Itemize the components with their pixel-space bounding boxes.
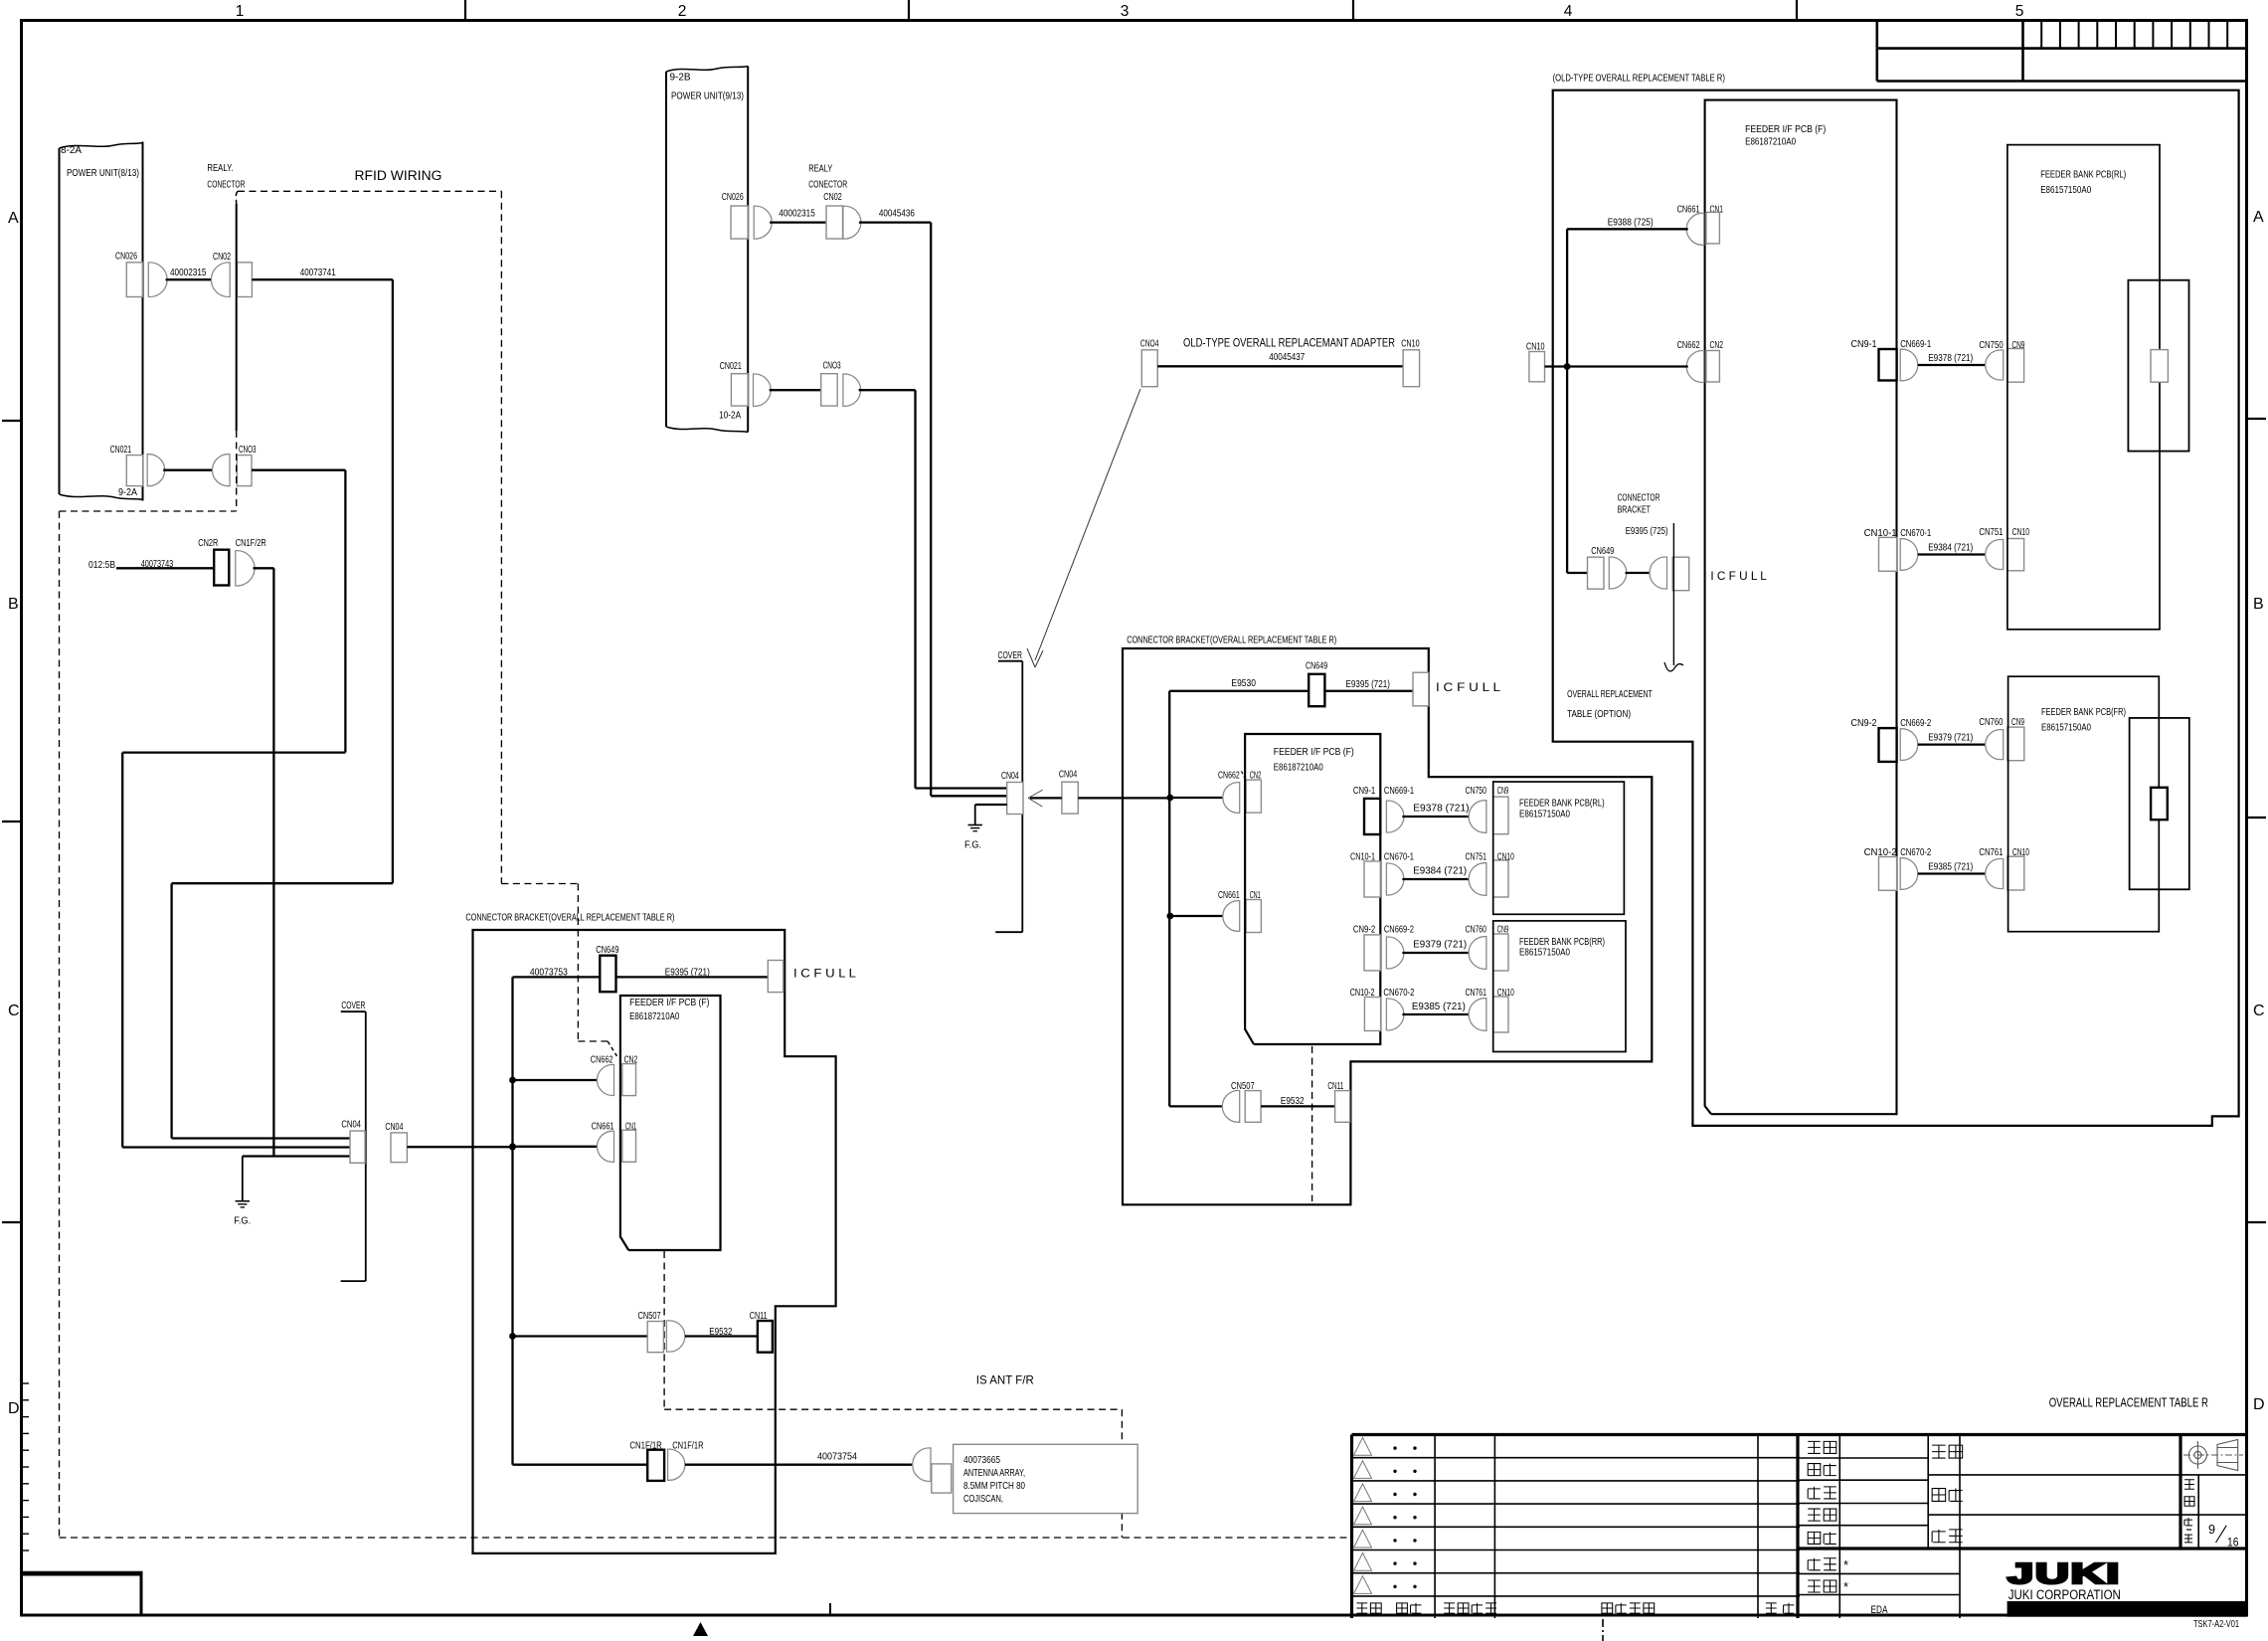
svg-text:3: 3 bbox=[1121, 3, 1130, 20]
svg-text:I C F U L L: I C F U L L bbox=[1710, 569, 1767, 583]
svg-text:REALY: REALY bbox=[808, 163, 832, 175]
feeder bank PCB RR box central bbox=[1493, 921, 1626, 1052]
svg-text:FEEDER I/F PCB (F): FEEDER I/F PCB (F) bbox=[629, 997, 709, 1008]
svg-text:CN751: CN751 bbox=[1466, 850, 1486, 862]
svg-text:B: B bbox=[8, 596, 19, 613]
svg-text:CN662: CN662 bbox=[1677, 339, 1700, 351]
svg-text:IS ANT F/R: IS ANT F/R bbox=[976, 1373, 1034, 1387]
svg-text:E86157150A0: E86157150A0 bbox=[1519, 808, 1570, 820]
svg-text:E86187210A0: E86187210A0 bbox=[1274, 762, 1323, 774]
svg-text:*: * bbox=[1843, 1579, 1848, 1594]
svg-text:9-2A: 9-2A bbox=[118, 486, 137, 498]
svg-text:EDA: EDA bbox=[1871, 1604, 1888, 1616]
svg-text:CNO4: CNO4 bbox=[1140, 338, 1159, 350]
svg-text:40073741: 40073741 bbox=[300, 267, 336, 278]
feeder I/F PCB box left bbox=[620, 996, 721, 1250]
svg-text:CN9-1: CN9-1 bbox=[1851, 338, 1877, 350]
svg-text:CN04: CN04 bbox=[1059, 769, 1077, 781]
svg-text:JUKI: JUKI bbox=[2007, 1558, 2121, 1590]
svg-text:5: 5 bbox=[2015, 3, 2024, 20]
svg-text:F.G.: F.G. bbox=[234, 1215, 251, 1227]
svg-text:40073665: 40073665 bbox=[963, 1454, 1000, 1466]
wire F.G. branch center bbox=[975, 804, 1007, 806]
svg-text:CN750: CN750 bbox=[1466, 785, 1486, 797]
svg-text:1: 1 bbox=[236, 3, 245, 20]
svg-text:16: 16 bbox=[2227, 1537, 2239, 1549]
svg-text:4: 4 bbox=[1564, 3, 1573, 20]
connector IC FULL left bbox=[768, 961, 784, 993]
svg-text:40045436: 40045436 bbox=[879, 208, 915, 220]
FR bank overlay box bbox=[2130, 718, 2189, 889]
revision table header kanji bbox=[1356, 1603, 1367, 1613]
svg-text:CN9: CN9 bbox=[2011, 716, 2024, 728]
svg-text:ANTENNA ARRAY,: ANTENNA ARRAY, bbox=[963, 1467, 1025, 1479]
svg-text:CN9: CN9 bbox=[1497, 924, 1509, 936]
svg-text:OLD-TYPE OVERALL REPLACEMANT A: OLD-TYPE OVERALL REPLACEMANT ADAPTER bbox=[1183, 336, 1395, 350]
svg-text:CONNECTOR: CONNECTOR bbox=[1618, 492, 1660, 504]
plug direction arrow center bbox=[1030, 797, 1062, 799]
wire 40073743 bbox=[116, 567, 214, 569]
approval value dividers bbox=[1838, 1435, 1840, 1550]
svg-text:CN026: CN026 bbox=[115, 251, 137, 263]
svg-text:COVER: COVER bbox=[341, 1000, 365, 1011]
svg-text:F.G.: F.G. bbox=[964, 838, 981, 850]
svg-text:CONECTOR: CONECTOR bbox=[808, 178, 847, 190]
svg-text:POWER UNIT(8/13): POWER UNIT(8/13) bbox=[67, 167, 139, 179]
wire 40002315 bbox=[166, 278, 215, 280]
svg-text:JUKI CORPORATION: JUKI CORPORATION bbox=[2008, 1587, 2121, 1602]
approval kanji labels bbox=[1808, 1441, 1821, 1453]
zone boundary ticks right bbox=[2247, 418, 2266, 420]
svg-text:I C F U L L: I C F U L L bbox=[793, 966, 856, 980]
svg-text:CN670-2: CN670-2 bbox=[1900, 846, 1931, 858]
svg-text:CN662: CN662 bbox=[1218, 769, 1240, 781]
svg-text:A: A bbox=[8, 210, 19, 227]
wire E9395 (721) left bbox=[616, 976, 769, 978]
left bus wire bbox=[511, 977, 513, 1464]
svg-text:POWER UNIT(9/13): POWER UNIT(9/13) bbox=[671, 91, 744, 102]
svg-text:FEEDER I/F PCB (F): FEEDER I/F PCB (F) bbox=[1274, 746, 1354, 758]
model/part/name cells bbox=[1927, 1435, 1929, 1550]
svg-text:COJISCAN,: COJISCAN, bbox=[963, 1493, 1003, 1505]
svg-text:10-2A: 10-2A bbox=[719, 410, 741, 422]
central bracket box outline bbox=[1123, 648, 1652, 1204]
svg-text:CN2: CN2 bbox=[1710, 339, 1724, 351]
projection symbol cell bbox=[2179, 1435, 2181, 1550]
relay connector leader line solid bbox=[236, 204, 238, 431]
revision table columns bbox=[1434, 1435, 1436, 1619]
RL bank overlay box bbox=[2128, 280, 2188, 452]
old-type section outer box bbox=[1553, 91, 2239, 1126]
svg-text:CN669-1: CN669-1 bbox=[1384, 785, 1414, 797]
svg-text:CN507: CN507 bbox=[638, 1310, 661, 1322]
svg-text:CN021: CN021 bbox=[720, 360, 742, 372]
svg-text:CN9: CN9 bbox=[2011, 339, 2024, 351]
wire 40002315 (2) bbox=[770, 221, 826, 223]
svg-text:CONNECTOR BRACKET(OVERALL REPL: CONNECTOR BRACKET(OVERALL REPLACEMENT TA… bbox=[1127, 634, 1336, 645]
center mark triangle bottom bbox=[693, 1622, 708, 1636]
svg-text:CN9-1: CN9-1 bbox=[1353, 785, 1375, 797]
svg-text:CN661: CN661 bbox=[1218, 889, 1240, 901]
svg-text:B: B bbox=[2253, 596, 2264, 613]
svg-text:9-2B: 9-2B bbox=[670, 71, 691, 83]
connector CN661/CN1 left bbox=[513, 1146, 600, 1148]
svg-text:(OLD-TYPE OVERALL REPLACEMENT: (OLD-TYPE OVERALL REPLACEMENT TABLE R) bbox=[1553, 73, 1725, 85]
svg-text:CN04: CN04 bbox=[385, 1121, 403, 1133]
feeder I/F PCB box central bbox=[1245, 734, 1380, 1044]
svg-text:CN2R: CN2R bbox=[198, 537, 218, 549]
svg-text:CN661: CN661 bbox=[1677, 203, 1700, 215]
svg-text:E86157150A0: E86157150A0 bbox=[2040, 184, 2091, 196]
antenna array info box bbox=[954, 1444, 1138, 1513]
svg-text:CN669-2: CN669-2 bbox=[1384, 924, 1414, 936]
svg-text:CN670-1: CN670-1 bbox=[1900, 527, 1931, 539]
ruler ticks bottom-left border bbox=[21, 1382, 29, 1384]
svg-text:CN662: CN662 bbox=[591, 1054, 613, 1066]
revision table rows bbox=[1352, 1457, 1801, 1459]
svg-text:CONECTOR: CONECTOR bbox=[207, 178, 245, 190]
svg-text:E9378 (721): E9378 (721) bbox=[1928, 352, 1973, 364]
svg-text:CN751: CN751 bbox=[1979, 526, 2003, 538]
svg-text:C: C bbox=[8, 1003, 20, 1019]
svg-text:E9532: E9532 bbox=[1281, 1095, 1305, 1107]
svg-text:40002315: 40002315 bbox=[779, 208, 815, 220]
svg-text:D: D bbox=[8, 1400, 20, 1417]
dashed drop from central feeder box bbox=[1311, 1046, 1313, 1201]
approval column cells bbox=[1798, 1457, 1928, 1459]
svg-text:A: A bbox=[2253, 209, 2264, 226]
svg-text:I C F U L L: I C F U L L bbox=[1436, 680, 1500, 694]
svg-text:CN649: CN649 bbox=[1306, 660, 1327, 672]
svg-text:E86157150A0: E86157150A0 bbox=[2041, 722, 2091, 734]
svg-text:CN9: CN9 bbox=[1497, 785, 1509, 797]
svg-text:40073754: 40073754 bbox=[817, 1451, 857, 1463]
antenna connector bbox=[913, 1448, 931, 1482]
power unit 8/13 box bbox=[60, 143, 143, 149]
svg-text:40073753: 40073753 bbox=[530, 966, 568, 978]
svg-text:CN760: CN760 bbox=[1466, 924, 1486, 936]
connector CN661/CN1 central bbox=[1169, 915, 1224, 917]
svg-text:CN021: CN021 bbox=[110, 444, 132, 456]
wire center CN04 to bus bbox=[1078, 797, 1170, 799]
svg-text:40002315: 40002315 bbox=[170, 267, 207, 278]
svg-text:012:5B: 012:5B bbox=[88, 559, 115, 571]
zone boundary ticks left bbox=[2, 420, 21, 422]
dashed leader to left CN662 bbox=[500, 191, 502, 883]
svg-text:9: 9 bbox=[2208, 1522, 2215, 1537]
leader arrow to option table label bbox=[1672, 523, 1674, 665]
svg-text:CN1F/1R: CN1F/1R bbox=[672, 1440, 704, 1452]
svg-text:CN9-2: CN9-2 bbox=[1851, 717, 1877, 729]
first angle projection symbol bbox=[2188, 1446, 2206, 1464]
leader arrow from adapter CN04 to cover bbox=[1035, 389, 1140, 660]
feeder I/F PCB box right bbox=[1705, 100, 1897, 1115]
svg-text:*: * bbox=[1843, 1557, 1848, 1572]
svg-text:E9388 (725): E9388 (725) bbox=[1608, 217, 1654, 229]
svg-text:CN670-2: CN670-2 bbox=[1383, 987, 1414, 999]
connector CN507/CN11 left bbox=[513, 1335, 648, 1337]
svg-text:CONNECTOR BRACKET(OVERALL REPL: CONNECTOR BRACKET(OVERALL REPLACEMENT TA… bbox=[465, 912, 674, 924]
wire E9388 (725) bbox=[1567, 228, 1688, 230]
svg-text:D: D bbox=[2253, 1396, 2265, 1413]
dashed RFID wiring boundary bbox=[238, 190, 501, 192]
svg-text:E9385 (721): E9385 (721) bbox=[1928, 861, 1973, 873]
title block outer frame bbox=[1352, 1433, 2248, 1436]
connector CN662/CN2 central bbox=[1170, 797, 1225, 799]
svg-text:COVER: COVER bbox=[998, 649, 1023, 661]
svg-text:CN1F/2R: CN1F/2R bbox=[236, 537, 266, 549]
scale page kanji bbox=[2184, 1480, 2194, 1489]
svg-text:CN750: CN750 bbox=[1979, 339, 2003, 351]
fold mark dash-dot bottom bbox=[1602, 1619, 1604, 1641]
svg-text:CN9-2: CN9-2 bbox=[1353, 924, 1375, 936]
wire CN1F/2R route to CN04 bbox=[254, 567, 274, 569]
svg-text:40045437: 40045437 bbox=[1269, 351, 1305, 363]
feeder bank PCB FR box right bbox=[2008, 676, 2160, 932]
power unit 9/13 box bbox=[666, 67, 748, 73]
left bracket box outline bbox=[473, 930, 836, 1553]
svg-text:E9395 (721): E9395 (721) bbox=[665, 966, 710, 978]
svg-text:BRACKET: BRACKET bbox=[1618, 504, 1652, 516]
svg-text:CN669-2: CN669-2 bbox=[1900, 717, 1931, 729]
svg-text:E9384 (721): E9384 (721) bbox=[1413, 865, 1467, 877]
wire 40045436 route to center CN04 bbox=[859, 221, 931, 223]
svg-text:OVERALL REPLACEMENT TABLE R: OVERALL REPLACEMENT TABLE R bbox=[2049, 1395, 2208, 1410]
svg-text:E86187210A0: E86187210A0 bbox=[629, 1010, 679, 1022]
svg-text:E86187210A0: E86187210A0 bbox=[1745, 136, 1796, 148]
svg-text:TABLE (OPTION): TABLE (OPTION) bbox=[1567, 708, 1631, 720]
svg-text:CN10: CN10 bbox=[1497, 987, 1514, 999]
connector IC FULL central bbox=[1413, 672, 1429, 706]
svg-text:E9378 (721): E9378 (721) bbox=[1413, 803, 1469, 815]
svg-text:E9379 (721): E9379 (721) bbox=[1928, 732, 1973, 744]
feeder bank PCB RL box central bbox=[1493, 782, 1625, 914]
svg-text:CN760: CN760 bbox=[1979, 716, 2003, 728]
svg-text:CN10: CN10 bbox=[2012, 526, 2029, 538]
revision triangles and date dots bbox=[1354, 1438, 1372, 1456]
svg-text:FEEDER BANK PCB(RL): FEEDER BANK PCB(RL) bbox=[2040, 169, 2126, 181]
zone tick marks top bbox=[464, 0, 466, 20]
svg-text:CN02: CN02 bbox=[213, 251, 231, 263]
svg-text:2: 2 bbox=[678, 3, 687, 20]
bottom center tick bbox=[829, 1603, 831, 1614]
svg-text:E9385 (721): E9385 (721) bbox=[1412, 1001, 1466, 1012]
connector CN507/CN11 central bbox=[1169, 1105, 1224, 1107]
svg-text:FEEDER I/F PCB (F): FEEDER I/F PCB (F) bbox=[1745, 123, 1826, 135]
svg-text:E9384 (721): E9384 (721) bbox=[1928, 542, 1973, 554]
wire CN021-CN03 (2) bbox=[770, 389, 821, 391]
svg-text:CN649: CN649 bbox=[1591, 545, 1614, 557]
svg-text:E86157150A0: E86157150A0 bbox=[1519, 946, 1570, 958]
connector CN1F/1R left pair bbox=[513, 1464, 648, 1466]
svg-text:E9532: E9532 bbox=[709, 1326, 732, 1338]
svg-text:CN10: CN10 bbox=[2012, 846, 2029, 858]
wire CN03 route to center CN04 bbox=[859, 389, 916, 391]
svg-text:C: C bbox=[2253, 1003, 2265, 1019]
svg-text:CN761: CN761 bbox=[1979, 846, 2003, 858]
svg-text:CN669-1: CN669-1 bbox=[1900, 338, 1931, 350]
svg-text:E9530: E9530 bbox=[1231, 677, 1256, 689]
svg-text:CN670-1: CN670-1 bbox=[1384, 850, 1414, 862]
top-right revision strip table bbox=[1876, 20, 1879, 82]
ground F.G. bottom-left bbox=[242, 1157, 244, 1201]
svg-text:CN649: CN649 bbox=[596, 944, 618, 956]
black bar bottom bbox=[2007, 1601, 2247, 1617]
wire E9395 (721) central bbox=[1324, 690, 1413, 692]
svg-text:E9395 (721): E9395 (721) bbox=[1346, 678, 1390, 690]
svg-text:CNO3: CNO3 bbox=[823, 359, 841, 371]
svg-text:E9395 (725): E9395 (725) bbox=[1626, 525, 1668, 537]
connector CN662/CN2 left bbox=[513, 1079, 600, 1081]
svg-text:CN10: CN10 bbox=[1401, 338, 1419, 350]
svg-text:RFID WIRING: RFID WIRING bbox=[355, 168, 442, 183]
feeder bank PCB RL box right bbox=[2007, 145, 2160, 630]
svg-text:8.5MM PITCH 80: 8.5MM PITCH 80 bbox=[963, 1480, 1025, 1492]
svg-text:CN026: CN026 bbox=[722, 191, 744, 203]
svg-text:E9379 (721): E9379 (721) bbox=[1413, 939, 1467, 951]
svg-text:40073743: 40073743 bbox=[141, 558, 174, 570]
svg-text:OVERALL REPLACEMENT: OVERALL REPLACEMENT bbox=[1567, 688, 1653, 700]
svg-text:CN761: CN761 bbox=[1466, 987, 1486, 999]
svg-text:8-2A: 8-2A bbox=[61, 144, 82, 156]
svg-text:CN02: CN02 bbox=[823, 191, 842, 203]
wire CN021-CN03 bbox=[163, 469, 213, 471]
svg-text:FEEDER BANK PCB(FR): FEEDER BANK PCB(FR) bbox=[2041, 706, 2126, 718]
wire CN03 route to CN04 bbox=[252, 469, 345, 471]
wire CN04 to bus bbox=[407, 1146, 512, 1148]
svg-text:CN04: CN04 bbox=[1001, 770, 1019, 782]
svg-text:CNO3: CNO3 bbox=[239, 444, 257, 456]
svg-text:REALY.: REALY. bbox=[207, 162, 233, 174]
svg-text:CN04: CN04 bbox=[341, 1119, 361, 1131]
svg-text:CN10: CN10 bbox=[1497, 850, 1514, 862]
central bus wire bbox=[1168, 691, 1170, 1107]
wire 40073741 route to CN04 bbox=[252, 278, 393, 280]
svg-text:TSK7-A2-V01: TSK7-A2-V01 bbox=[2193, 1619, 2239, 1630]
wire 40073754 to antenna bbox=[685, 1464, 914, 1466]
bottom-left stamp box bbox=[22, 1574, 142, 1615]
svg-text:CN661: CN661 bbox=[592, 1120, 614, 1132]
dashed IS ANT F/R box bbox=[663, 1251, 665, 1409]
